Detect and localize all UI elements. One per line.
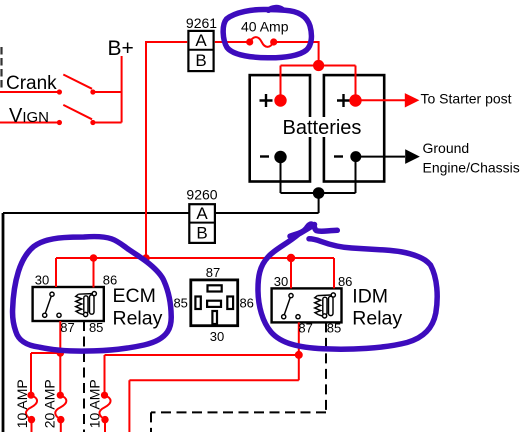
svg-text:A: A [195, 31, 207, 50]
svg-text:Batteries: Batteries [283, 117, 362, 139]
svg-text:87: 87 [206, 265, 220, 280]
svg-text:Relay: Relay [352, 308, 402, 330]
svg-text:10 AMP: 10 AMP [14, 379, 30, 428]
svg-text:To Starter post: To Starter post [421, 91, 512, 107]
svg-text:30: 30 [35, 273, 49, 288]
svg-text:IDM: IDM [352, 286, 388, 308]
svg-text:VIGN: VIGN [9, 105, 49, 127]
svg-text:9261: 9261 [186, 15, 217, 31]
svg-text:87: 87 [60, 320, 74, 335]
svg-text:30: 30 [210, 329, 224, 344]
svg-text:30: 30 [274, 274, 288, 289]
svg-text:86: 86 [338, 274, 352, 289]
svg-text:Relay: Relay [113, 308, 163, 330]
svg-text:Engine/Chassis: Engine/Chassis [423, 160, 520, 176]
svg-text:9260: 9260 [186, 187, 217, 203]
svg-text:10 AMP: 10 AMP [87, 379, 103, 428]
svg-text:40 Amp: 40 Amp [241, 19, 289, 35]
svg-text:20 AMP: 20 AMP [42, 379, 58, 428]
svg-text:Crank: Crank [6, 73, 57, 94]
svg-text:87: 87 [298, 321, 312, 336]
svg-text:86: 86 [239, 296, 253, 311]
svg-text:B: B [196, 224, 207, 243]
svg-text:A: A [196, 204, 208, 223]
svg-text:85: 85 [327, 321, 341, 336]
svg-text:Ground: Ground [423, 140, 470, 156]
svg-text:B+: B+ [108, 37, 134, 60]
svg-text:B: B [195, 51, 206, 70]
svg-text:ECM: ECM [113, 285, 156, 307]
svg-text:85: 85 [89, 320, 103, 335]
svg-text:85: 85 [173, 296, 187, 311]
